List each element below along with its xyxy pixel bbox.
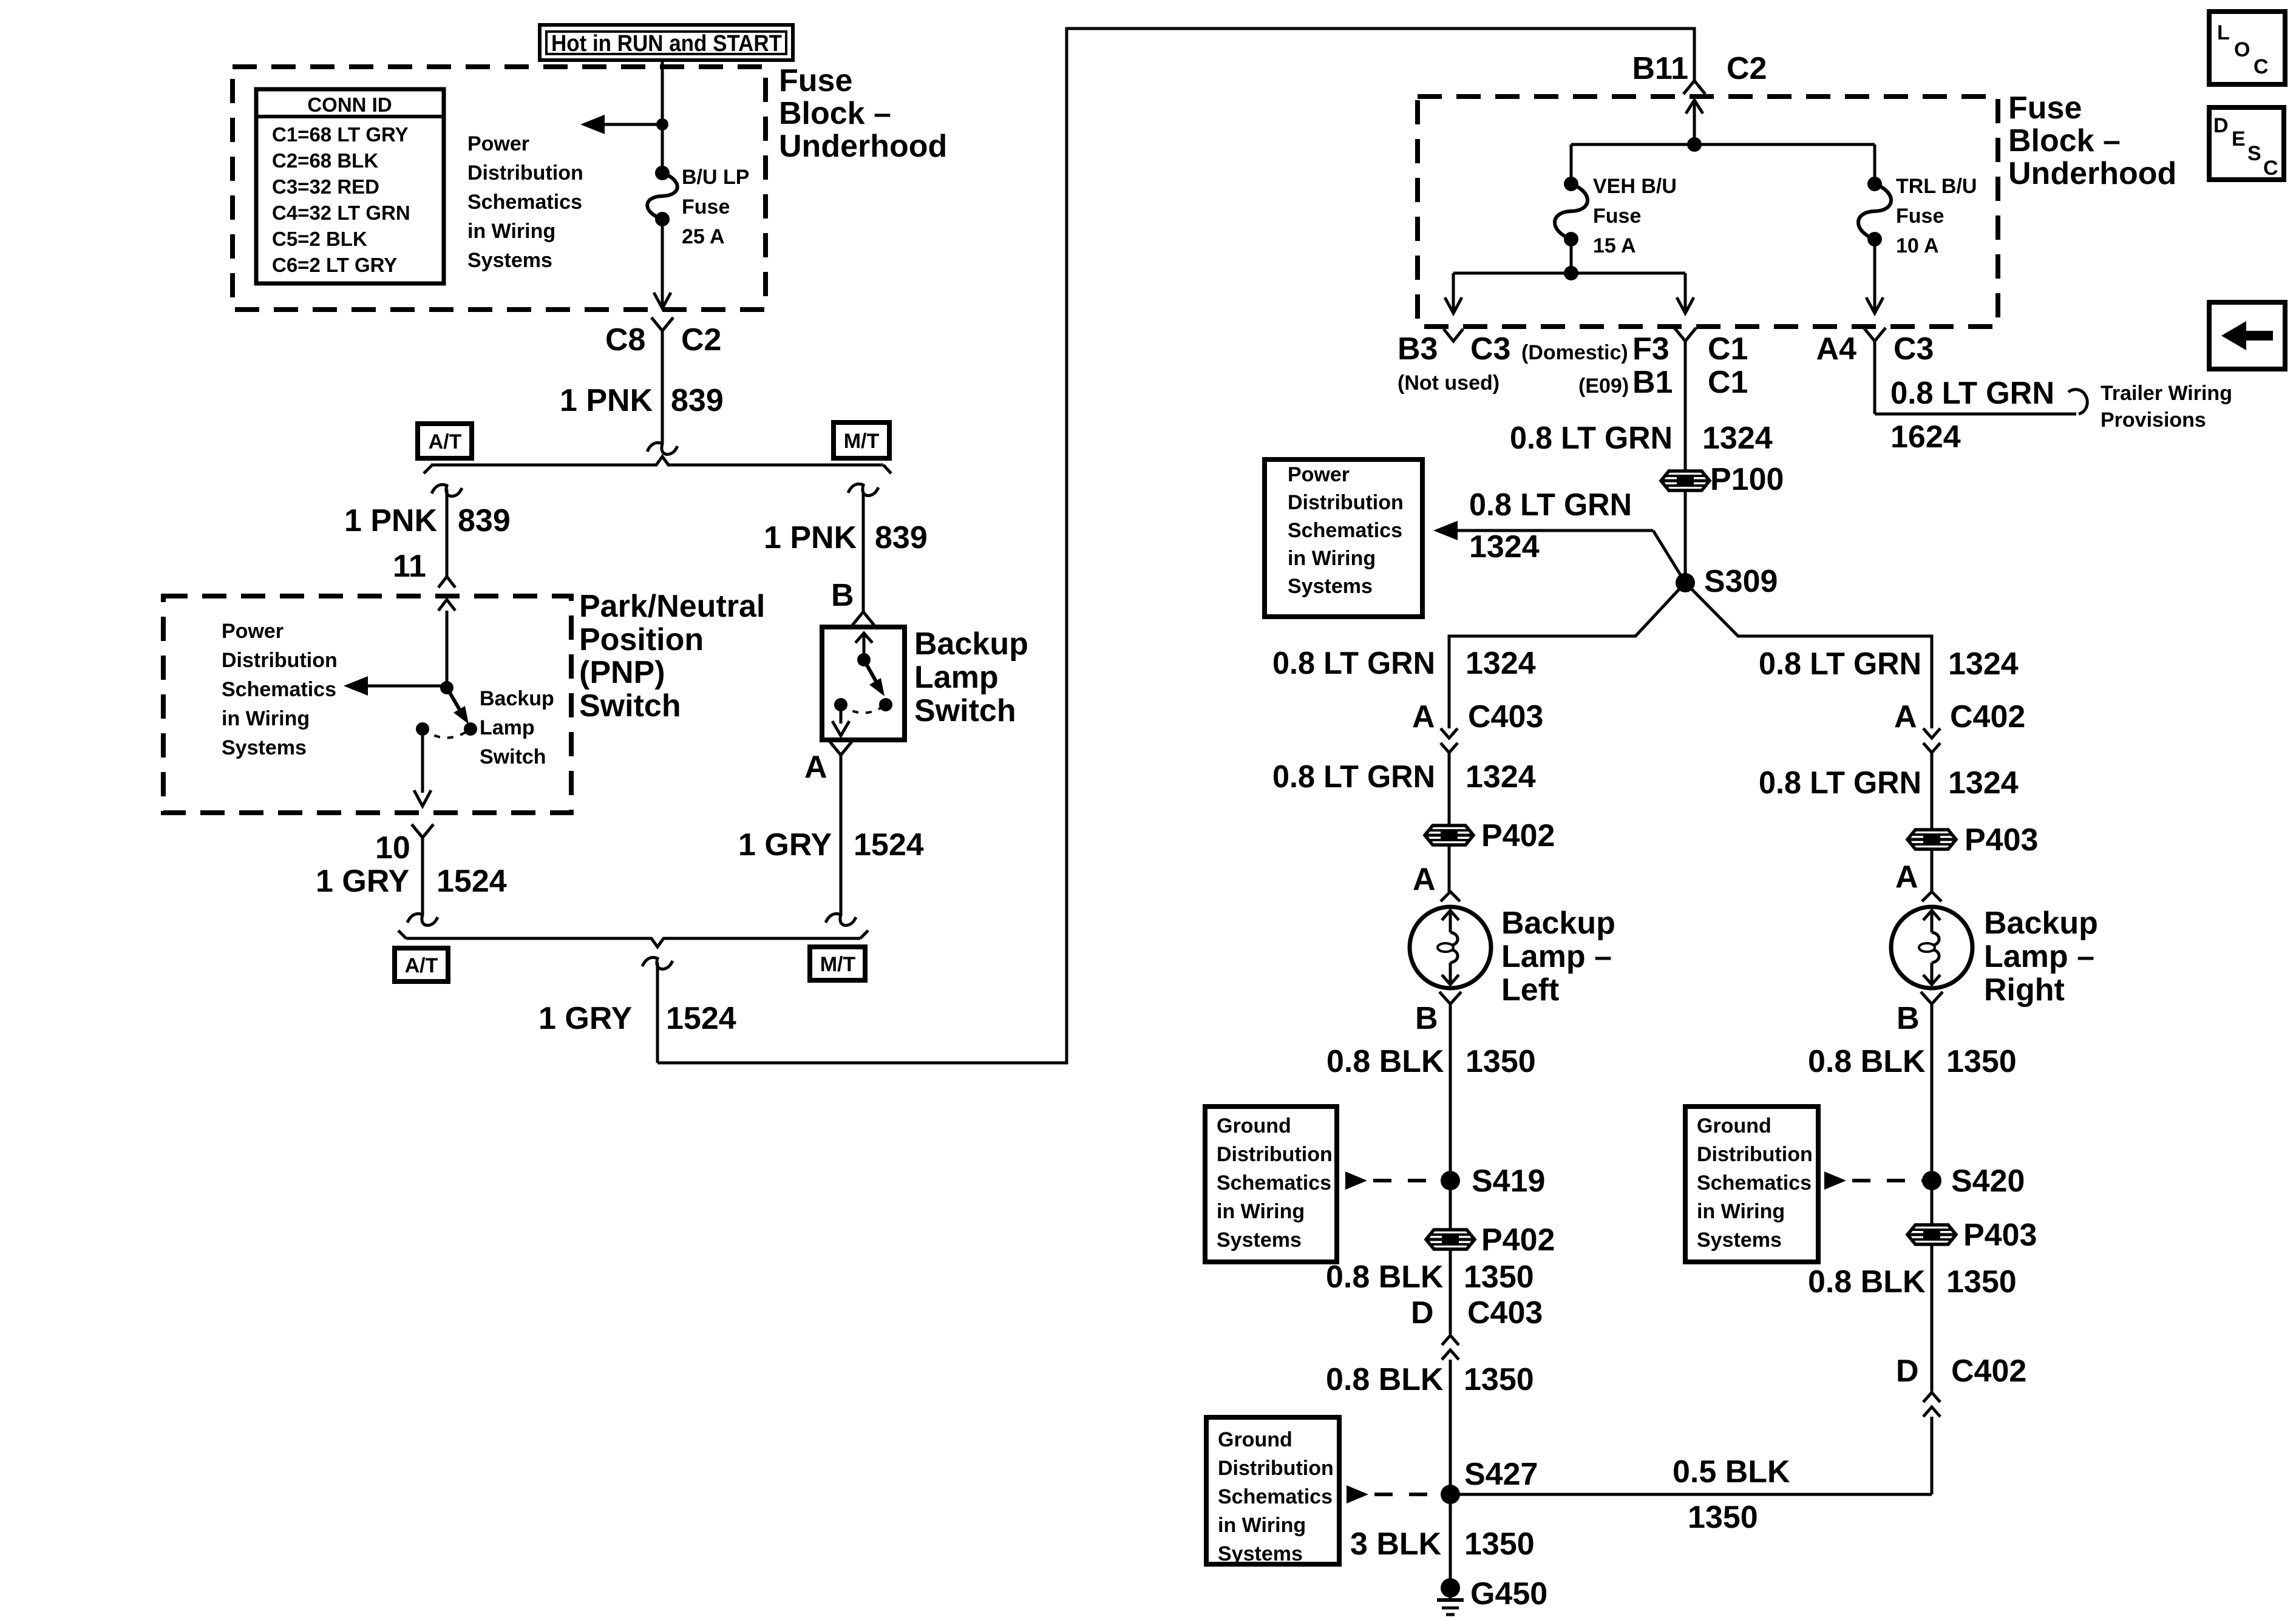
svg-text:Provisions: Provisions [2101,408,2206,432]
svg-text:P403: P403 [1963,1218,2037,1253]
connector A/C403 [1412,699,1543,753]
svg-text:0.8 LT GRN: 0.8 LT GRN [1759,646,1921,682]
svg-text:Systems: Systems [222,736,307,759]
svg-text:F3: F3 [1632,331,1669,367]
svg-text:C1: C1 [1708,331,1748,367]
LOC box [2209,12,2285,84]
terminal B of left lamp [1415,992,1461,1036]
connector B3/C3 (not used) [1398,329,1510,395]
svg-text:in Wiring: in Wiring [1218,1514,1306,1537]
svg-text:C2: C2 [1727,51,1767,86]
svg-text:C402: C402 [1950,699,2025,734]
CONN ID table [256,89,444,283]
dashed link to S427 [1347,1485,1441,1503]
backup lamp left name [1501,906,1615,1008]
wire 0.8 LT GRN 1324 (right lamp) [1759,646,2019,682]
svg-text:B: B [1897,1001,1920,1036]
svg-text:A4: A4 [1816,331,1857,367]
svg-text:C3: C3 [1894,331,1934,367]
svg-text:A: A [1412,699,1435,734]
terminal B of backup lamp switch [831,578,874,625]
wire from fuse to box edge with arrow [654,219,671,308]
svg-text:E: E [2232,127,2246,151]
PNP switch dashed box [163,596,571,813]
svg-text:Ground: Ground [1697,1114,1771,1137]
svg-text:Power: Power [222,620,284,643]
svg-text:1350: 1350 [1946,1044,2017,1079]
fuse block underhood (right) dashed box [1418,97,1998,327]
svg-text:1324: 1324 [1948,646,2019,682]
backup lamp switch internals [832,633,892,736]
svg-text:0.8 BLK: 0.8 BLK [1326,1044,1444,1079]
svg-text:Power: Power [467,132,529,155]
wire break curl [826,914,856,925]
svg-text:G450: G450 [1470,1576,1547,1612]
wire 1 GRY 1524 (right) [738,755,924,914]
svg-text:0.8 BLK: 0.8 BLK [1326,1362,1444,1397]
svg-text:A: A [1894,699,1917,734]
svg-text:0.8 BLK: 0.8 BLK [1808,1264,1926,1300]
A/T tag (top) [418,424,472,458]
svg-text:Systems: Systems [1697,1229,1782,1252]
svg-text:(PNP): (PNP) [579,655,665,690]
node: hot wire junction [656,118,668,131]
svg-text:S420: S420 [1951,1164,2025,1199]
terminal A (female Y) [804,742,852,785]
svg-text:1524: 1524 [666,1001,736,1036]
svg-text:0.8 BLK: 0.8 BLK [1808,1044,1926,1079]
pass-through P402 (lower) [1426,1181,1555,1258]
svg-text:Fuse: Fuse [1593,205,1641,228]
svg-text:Left: Left [1501,972,1559,1008]
ground distribution note box 3 [1206,1417,1339,1565]
svg-text:1350: 1350 [1464,1362,1534,1397]
wire 0.8 LT GRN 1324 (right lamp, lower) [1759,753,2019,830]
svg-text:1 PNK: 1 PNK [560,383,653,418]
svg-text:1324: 1324 [1948,765,2019,801]
svg-text:1 GRY: 1 GRY [738,827,832,863]
wire 0.8 BLK 1350 (left, lower) [1326,1249,1534,1334]
wire 0.8 BLK 1350 to S427 [1326,1360,1534,1494]
wire break curl [407,914,438,925]
svg-text:D: D [2213,114,2229,137]
svg-text:Fuse: Fuse [1896,205,1944,228]
svg-text:1350: 1350 [1464,1259,1534,1295]
svg-text:(Not used): (Not used) [1398,371,1500,395]
svg-text:Right: Right [1984,972,2065,1008]
svg-text:C5=2 BLK: C5=2 BLK [272,228,367,250]
svg-text:0.8 BLK: 0.8 BLK [1326,1259,1444,1295]
svg-text:839: 839 [875,520,928,555]
svg-text:0.5 BLK: 0.5 BLK [1673,1454,1790,1490]
svg-text:B3: B3 [1398,331,1438,367]
connector A/C402 [1894,699,2025,753]
svg-text:S419: S419 [1472,1164,1545,1199]
connector C8/C2 (female Y) [605,317,721,358]
svg-text:C: C [2263,157,2278,180]
DESC box [2209,107,2284,180]
svg-text:Distribution: Distribution [1697,1143,1813,1166]
VEH fuse output split [1445,239,1694,313]
svg-text:P402: P402 [1481,1222,1555,1258]
svg-text:Schematics: Schematics [1288,519,1402,542]
svg-text:0.8 LT GRN: 0.8 LT GRN [1469,487,1632,523]
svg-text:C3=32 RED: C3=32 RED [272,175,379,198]
svg-text:Block –: Block – [779,96,891,131]
svg-text:1324: 1324 [1466,646,1536,681]
connector F3/C1 B1/C1 [1521,328,1748,400]
branch arrow 0.8 LT GRN 1324 to power distribution [1433,487,1685,583]
wire down to S427 line [1931,1417,1934,1494]
svg-text:M/T: M/T [820,953,856,976]
wire break curl [647,442,678,454]
svg-text:in Wiring: in Wiring [1217,1200,1305,1223]
svg-text:Ground: Ground [1217,1114,1291,1137]
wire 0.8 BLK 1350 (right, lower) [1808,1244,2017,1391]
svg-text:Power: Power [1288,463,1350,486]
node: fuse feed junction [1687,137,1702,152]
pass-through P402 [1425,818,1555,853]
svg-text:Distribution: Distribution [1217,1143,1333,1166]
arrow to power distribution [580,115,662,134]
svg-text:A: A [804,750,827,785]
right branch wire 1 PNK 839 [764,484,928,612]
svg-text:1524: 1524 [436,864,507,899]
svg-text:Block –: Block – [2008,123,2121,158]
svg-text:Switch: Switch [914,693,1016,728]
svg-text:Underhood: Underhood [2008,156,2176,191]
svg-text:P402: P402 [1481,818,1555,853]
svg-text:(E09): (E09) [1578,375,1629,398]
svg-text:Underhood: Underhood [779,129,947,164]
PNP switch internals [344,611,477,806]
svg-text:Distribution: Distribution [467,161,583,185]
svg-text:Systems: Systems [467,249,552,272]
svg-text:0.8 LT GRN: 0.8 LT GRN [1759,765,1921,801]
splice S427 [1441,1457,1538,1504]
M/T tag (bottom) [810,947,865,980]
svg-text:1324: 1324 [1469,529,1540,564]
svg-text:(Domestic): (Domestic) [1521,341,1628,364]
svg-text:0.8 LT GRN: 0.8 LT GRN [1272,646,1435,681]
svg-text:C403: C403 [1468,699,1543,734]
svg-text:1624: 1624 [1890,419,1961,455]
svg-text:in Wiring: in Wiring [1697,1200,1785,1223]
wire from hot box down [661,59,664,173]
svg-text:1324: 1324 [1702,421,1773,456]
svg-text:P100: P100 [1710,462,1784,497]
connector D/C402 [1896,1354,2026,1417]
power distribution note (in fuse block) [467,132,583,272]
merge line A/T M/T (bottom) [398,931,868,947]
A/T tag (bottom) [395,948,448,981]
svg-text:0.8 LT GRN: 0.8 LT GRN [1272,759,1435,795]
splice S309 [1676,564,1778,599]
svg-text:in Wiring: in Wiring [1288,547,1376,570]
power distribution note (in PNP box) [222,620,338,759]
svg-text:C3: C3 [1470,331,1510,367]
svg-text:in Wiring: in Wiring [467,220,555,243]
back arrow box [2209,302,2285,369]
svg-text:Systems: Systems [1218,1542,1303,1565]
svg-text:Fuse: Fuse [682,195,730,219]
svg-text:Fuse: Fuse [2008,90,2082,126]
fuse F: VEH B/U Fuse 15 A [1555,144,1677,257]
connector A4/C3 [1816,328,1934,367]
terminal 11 of PNP switch [393,549,455,611]
pass-through P100 [1661,462,1784,497]
svg-text:Trailer Wiring: Trailer Wiring [2101,382,2232,405]
svg-text:15 A: 15 A [1593,234,1636,257]
connector D/C403 [1411,1295,1543,1360]
svg-text:O: O [2234,38,2250,61]
svg-text:B: B [1415,1001,1438,1036]
M/T tag (top) [834,422,889,458]
svg-text:1 PNK: 1 PNK [764,520,857,555]
svg-text:Lamp –: Lamp – [1984,939,2094,974]
svg-text:TRL B/U: TRL B/U [1896,175,1977,198]
svg-text:L: L [2217,21,2230,44]
pass-through P403 (lower) [1907,1181,2037,1253]
svg-text:Position: Position [579,622,704,657]
label box: Hot in RUN and START [540,25,793,60]
svg-text:11: 11 [393,549,426,584]
ground distribution note box 2 [1685,1107,1818,1262]
svg-text:A/T: A/T [429,430,462,453]
svg-text:P403: P403 [1965,822,2038,858]
svg-text:1 PNK: 1 PNK [344,503,438,538]
fuse block (right) name [2008,90,2176,191]
svg-text:Systems: Systems [1288,575,1373,598]
left branch wire 1 PNK 839 [344,484,511,577]
svg-text:Fuse: Fuse [779,63,852,98]
backup lamp switch note (in PNP box) [480,687,554,768]
ground G450 [1437,1576,1547,1615]
svg-text:B: B [831,578,854,613]
wire 0.8 LT GRN 1624 to trailer [1875,341,2232,455]
feed line to both fuses [1571,143,1875,146]
splice outputs to both lamps [1449,583,1685,728]
svg-text:Backup: Backup [1501,906,1615,941]
svg-text:1350: 1350 [1466,1044,1536,1079]
fuse block (left) name [779,63,947,164]
wire 0.8 LT GRN 1324 to P100 [1510,341,1773,471]
wire 0.8 LT GRN 1324 (left lamp) [1272,646,1536,681]
svg-text:Switch: Switch [480,745,546,768]
svg-text:Backup: Backup [914,626,1028,662]
svg-text:Distribution: Distribution [222,649,338,672]
svg-text:A: A [1413,862,1436,897]
svg-text:Backup: Backup [480,687,554,710]
wire 0.8 BLK 1350 (left) [1326,1004,1536,1171]
wire 0.5 BLK 1350 (to right lamp ground) [1450,1454,1932,1535]
svg-text:C8: C8 [605,322,645,358]
svg-text:D: D [1411,1295,1434,1331]
fuse block underhood (left) dashed box [233,67,766,310]
svg-text:VEH B/U: VEH B/U [1593,175,1677,198]
svg-text:1350: 1350 [1946,1264,2017,1300]
svg-text:in Wiring: in Wiring [222,707,310,730]
svg-text:M/T: M/T [844,430,880,453]
wire 1 PNK 839 [560,331,724,442]
svg-text:C1: C1 [1708,365,1748,400]
svg-text:S427: S427 [1464,1457,1538,1492]
long routing wire to right fuse block [657,29,1694,1063]
svg-text:839: 839 [458,503,511,538]
splice S419 [1441,1164,1545,1199]
svg-text:Lamp: Lamp [480,716,535,739]
svg-text:Distribution: Distribution [1288,491,1404,514]
svg-text:S: S [2247,142,2261,165]
svg-text:Schematics: Schematics [467,191,582,214]
svg-text:C2=68 BLK: C2=68 BLK [272,149,378,172]
svg-text:C4=32 LT GRN: C4=32 LT GRN [272,202,410,224]
svg-text:Lamp: Lamp [914,660,999,695]
svg-text:Switch: Switch [579,688,681,724]
svg-text:Backup: Backup [1984,906,2098,941]
svg-text:C: C [2254,55,2269,78]
wire 1 GRY 1524 (left) [316,838,507,914]
svg-text:C403: C403 [1467,1295,1543,1331]
svg-text:10 A: 10 A [1896,234,1939,257]
svg-text:Schematics: Schematics [222,678,336,701]
svg-text:Hot in RUN and START: Hot in RUN and START [551,31,782,56]
backup lamp switch name [914,626,1028,728]
pass-through P403 [1907,822,2038,858]
svg-text:1524: 1524 [854,827,924,863]
dashed link to S420 [1824,1171,1922,1190]
svg-text:D: D [1896,1354,1919,1389]
wire 3 BLK 1350 to ground [1350,1494,1535,1578]
svg-text:Schematics: Schematics [1218,1485,1333,1508]
svg-text:C1=68 LT GRY: C1=68 LT GRY [272,123,409,146]
svg-text:C2: C2 [681,322,721,358]
backup lamp left (bulb) [1410,907,1491,988]
backup lamp right name [1984,906,2098,1008]
wire 0.8 BLK 1350 (right) [1808,1004,2017,1171]
svg-text:839: 839 [671,383,724,418]
svg-text:1 GRY: 1 GRY [538,1001,632,1036]
split line A/T M/T [424,456,891,473]
fuse F: B/U LP Fuse 25 A [647,166,749,248]
svg-text:CONN ID: CONN ID [307,93,392,116]
power distribution note box (solid) [1265,459,1422,617]
dashed link to S419 [1345,1171,1441,1190]
entry arrow into fuse block [1686,100,1703,144]
wire 0.8 LT GRN 1324 (left lamp, lower) [1272,753,1536,825]
svg-text:Schematics: Schematics [1217,1171,1331,1195]
svg-text:C6=2 LT GRY: C6=2 LT GRY [272,254,397,276]
svg-text:B/U LP: B/U LP [682,166,749,189]
ground distribution note box 1 [1205,1107,1337,1262]
svg-text:B1: B1 [1632,365,1673,400]
backup lamp switch box (M/T) [822,627,905,740]
svg-text:0.8 LT GRN: 0.8 LT GRN [1510,421,1673,456]
terminal B of right lamp [1897,992,1943,1036]
svg-text:Systems: Systems [1217,1229,1302,1252]
terminal A of left lamp [1413,845,1460,901]
svg-text:1350: 1350 [1464,1527,1535,1562]
fuse F: TRL B/U Fuse 10 A [1858,144,1977,313]
svg-text:A: A [1895,859,1918,895]
svg-text:1350: 1350 [1688,1500,1758,1535]
svg-text:25 A: 25 A [682,225,725,248]
svg-text:Park/Neutral: Park/Neutral [579,589,765,624]
wire 1 GRY 1524 (merged) [538,957,736,1063]
terminal A of right lamp [1895,849,1941,901]
svg-text:C402: C402 [1951,1354,2026,1389]
svg-text:1 GRY: 1 GRY [316,864,409,899]
svg-text:A/T: A/T [405,954,438,977]
svg-text:Schematics: Schematics [1697,1171,1812,1195]
svg-text:0.8 LT GRN: 0.8 LT GRN [1890,376,2054,411]
terminal 10 (female Y) [375,824,433,866]
svg-text:10: 10 [375,830,410,866]
svg-text:3 BLK: 3 BLK [1350,1527,1442,1562]
svg-text:Ground: Ground [1218,1428,1292,1451]
connector B11/C2 [1632,51,1767,94]
wire P100 to S309 [1684,490,1687,583]
PNP switch name [579,589,765,724]
svg-text:1324: 1324 [1466,759,1536,795]
backup lamp right (bulb) [1891,907,1972,988]
splice S420 [1922,1164,2025,1199]
svg-text:Distribution: Distribution [1218,1457,1334,1480]
svg-text:B11: B11 [1632,51,1688,86]
svg-text:Lamp –: Lamp – [1501,939,1612,974]
svg-text:S309: S309 [1704,564,1778,599]
